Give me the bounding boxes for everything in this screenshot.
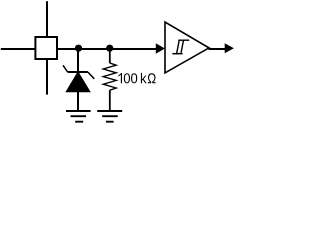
wire: lead from zener anode to ground [77,92,79,110]
ground symbol G1 bar 3 [75,121,83,123]
hysteresis symbol inside U1: top bar [178,39,189,41]
hysteresis symbol inside U1: left rising edge [177,40,180,54]
zener diode D1 right wing [88,72,94,79]
ground symbol G2 bar 1 [97,110,122,112]
label: "1" of 100 kOhm [118,73,122,83]
arrowhead into Schmitt trigger input [156,43,165,53]
wire: lead from dot 1 to zener cathode [77,49,79,72]
node: junction dot 2 [106,45,113,52]
ground symbol G1 bar 1 [66,110,91,112]
ground symbol G2 bar 2 [102,115,118,117]
wire: vertical stub below box [46,59,48,95]
resistor R1 zigzag [103,63,116,90]
label: "k" of 100 kOhm [141,73,147,83]
ground symbol G2 bar 3 [106,121,114,123]
zener diode D1 body (filled triangle, anode below) [67,73,89,92]
wire: input net (left horizontal) [1,48,156,50]
label: Omega of 100 kOhm [148,73,156,83]
wire: output net [209,48,226,50]
node: junction dot 1 [75,45,82,52]
arrowhead on output net [225,43,234,53]
zener diode D1 left wing [63,65,68,72]
zener diode D1 cathode bar [68,71,88,73]
label: first "0" of 100 kOhm [124,73,130,83]
label: second "0" of 100 kOhm [131,73,137,83]
hysteresis symbol inside U1: right rising edge [181,40,184,54]
ground symbol G1 bar 2 [71,115,86,117]
wire: vertical stub above box [46,1,48,37]
wire: lead from dot 2 to resistor [109,49,111,63]
box (input pad cell) [35,37,57,59]
hysteresis symbol inside U1: bottom bar [172,53,182,55]
Schmitt trigger buffer U1 (triangle) [165,22,209,73]
wire: lead from resistor to ground [109,90,111,110]
